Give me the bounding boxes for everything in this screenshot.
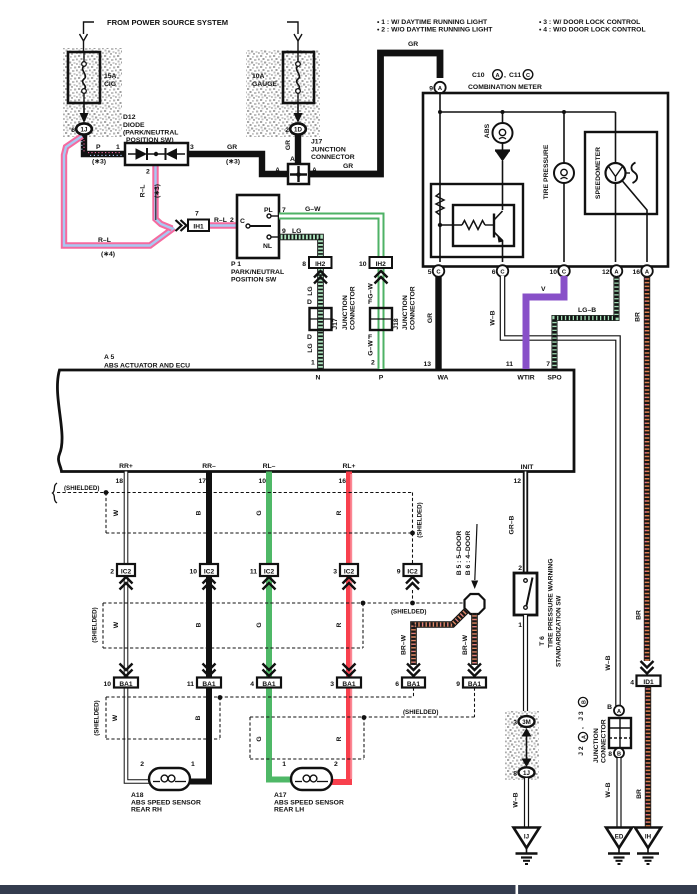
svg-text:B: B — [196, 510, 203, 515]
svg-text:CONNECTOR: CONNECTOR — [410, 286, 417, 330]
svg-text:B: B — [581, 700, 587, 704]
svg-text:GR: GR — [408, 41, 418, 48]
svg-text:PARK/NEUTRAL: PARK/NEUTRAL — [231, 269, 284, 276]
wire LG-B from meter pin12 to ECU SPO — [555, 276, 617, 369]
svg-text:12: 12 — [513, 478, 521, 485]
wire GR from 1D to J17 — [285, 134, 298, 164]
node base junction — [438, 223, 442, 227]
svg-text:POSITION SW: POSITION SW — [231, 277, 277, 284]
chevron into IH2 left — [314, 271, 327, 284]
svg-text:10A: 10A — [252, 73, 265, 80]
transistor inner box — [453, 205, 514, 246]
connector BA1 pin4 — [250, 678, 281, 689]
pin 9 A — [429, 82, 445, 93]
shield dashed sensor RR — [106, 688, 414, 740]
svg-text:C11: C11 — [509, 72, 521, 79]
junction connector J17 — [275, 164, 317, 184]
svg-text:,: , — [578, 727, 585, 729]
svg-text:B: B — [617, 752, 621, 758]
svg-text:8: 8 — [513, 771, 517, 778]
chevron above BA1 r — [343, 664, 356, 677]
svg-text:P 1: P 1 — [231, 261, 241, 268]
svg-text:CONNECTOR: CONNECTOR — [350, 286, 357, 330]
svg-text:NL: NL — [263, 243, 272, 250]
chevron under IC2 w — [120, 577, 133, 590]
svg-text:TIRE PRESSURE: TIRE PRESSURE — [543, 144, 550, 199]
label GR right of J17 — [343, 163, 353, 170]
svg-text:6: 6 — [395, 681, 399, 688]
svg-text:G–W: G–W — [305, 206, 321, 213]
svg-text:IC2: IC2 — [264, 569, 275, 576]
svg-text:BA1: BA1 — [202, 681, 216, 688]
svg-text:BR–W: BR–W — [401, 634, 408, 655]
labels W B G R upper shield — [113, 502, 424, 537]
junction connector J18 — [370, 286, 417, 330]
label 3 GR (*3) — [190, 144, 240, 166]
svg-text:BR: BR — [635, 312, 642, 322]
fuse 10A GAUGE — [252, 52, 314, 103]
svg-text:1D: 1D — [294, 127, 302, 134]
svg-text:3M: 3M — [522, 719, 531, 726]
wire from power source right — [287, 22, 302, 52]
svg-text:BR: BR — [636, 789, 643, 799]
shield dashed box upper — [57, 493, 413, 534]
connector oval 1D — [285, 123, 306, 134]
wire W-B to ground IJ — [513, 778, 527, 827]
svg-text:GR: GR — [427, 313, 434, 323]
label D12 DIODE — [123, 114, 178, 144]
label J17 JUNCTION CONNECTOR — [311, 139, 355, 162]
chevron above BA1 brw1 — [407, 664, 420, 677]
svg-text:(SHIELDED): (SHIELDED) — [94, 700, 101, 735]
svg-text:IH2: IH2 — [376, 261, 387, 268]
stipple area fuse 15A — [63, 48, 122, 137]
svg-text:JUNCTION: JUNCTION — [402, 295, 409, 330]
meter left rail wire — [439, 92, 441, 262]
pin 6 C — [492, 265, 509, 277]
stipple area fuse 10A — [246, 50, 320, 137]
wire LG from NL — [279, 237, 321, 257]
svg-text:D: D — [307, 299, 312, 306]
svg-text:J17: J17 — [311, 139, 323, 146]
svg-text:A: A — [617, 709, 621, 715]
svg-text:9: 9 — [429, 86, 433, 93]
svg-text:G–W: G–W — [368, 283, 375, 299]
connector IC2 pin9 — [397, 564, 422, 576]
shield dashed sensor RL — [250, 688, 475, 760]
svg-text:16: 16 — [338, 478, 346, 485]
speedometer box — [585, 132, 657, 214]
svg-text:W–B: W–B — [513, 792, 520, 807]
pin 5 C — [428, 265, 445, 277]
svg-text:REAR RH: REAR RH — [131, 807, 162, 814]
chevron above BA1 b — [203, 664, 216, 677]
svg-text:R–L: R–L — [214, 217, 227, 224]
svg-text:4: 4 — [250, 681, 254, 688]
wire W-B to ground ED — [605, 758, 619, 827]
svg-text:BA1: BA1 — [342, 681, 356, 688]
svg-text:RR+: RR+ — [119, 463, 133, 470]
svg-text:C: C — [526, 73, 530, 79]
transistor Q — [494, 211, 504, 262]
wire BR from meter pin16 — [635, 276, 648, 661]
svg-text:IC2: IC2 — [204, 569, 215, 576]
svg-text:W: W — [113, 509, 120, 516]
chevron into ID1 — [641, 661, 654, 674]
base resistor — [440, 221, 493, 230]
shield ring octagon — [465, 594, 485, 614]
svg-text:A: A — [290, 156, 295, 163]
svg-text:• 2 : W/O DAYTIME RUNNING LIGH: • 2 : W/O DAYTIME RUNNING LIGHT — [377, 27, 493, 34]
svg-text:GR–B: GR–B — [509, 515, 516, 534]
tire pressure lamp — [543, 112, 574, 262]
svg-text:B: B — [607, 704, 612, 711]
svg-text:CONNECTOR: CONNECTOR — [311, 154, 355, 161]
svg-text:(SHIELDED): (SHIELDED) — [417, 502, 424, 537]
svg-text:6: 6 — [492, 269, 496, 276]
wire G-W from PL — [279, 216, 381, 257]
svg-text:(SHIELDED): (SHIELDED) — [64, 485, 99, 492]
wire GR big elbow to combination meter — [309, 41, 440, 174]
svg-text:W: W — [113, 621, 120, 628]
label B5 B6 door — [456, 524, 478, 589]
tire pressure warning standardization switch T6 — [514, 565, 537, 629]
svg-text:F: F — [368, 299, 372, 306]
connector BA1 pin10 — [103, 678, 138, 689]
junction connector J17 lower — [310, 286, 357, 330]
ECU bottom pin labels — [115, 463, 534, 485]
svg-text:1: 1 — [518, 622, 522, 629]
transistor outer box — [431, 184, 523, 257]
wire from power source left — [80, 22, 95, 52]
wire GR-B INIT — [509, 472, 526, 574]
svg-text:12: 12 — [602, 269, 610, 276]
svg-text:GR: GR — [227, 144, 237, 151]
labels 7 G-W — [282, 206, 321, 214]
wire W-B from meter pin6 — [490, 276, 619, 706]
svg-text:10: 10 — [359, 261, 367, 268]
junction connector J2 J3 grid — [609, 718, 631, 748]
arrow into connector 1D — [294, 103, 303, 123]
svg-text:IJ: IJ — [524, 834, 530, 841]
chevron under IC2 g — [263, 577, 276, 590]
svg-text:W–B: W–B — [490, 310, 497, 325]
node shield upper left — [104, 490, 109, 495]
label R-L (*4) — [98, 237, 115, 258]
label P 1 PARK/NEUTRAL POSITION SW — [231, 261, 284, 284]
svg-text:A: A — [581, 735, 587, 739]
svg-text:2: 2 — [110, 569, 114, 576]
wire GR diode to J17 — [188, 154, 288, 174]
svg-text:COMBINATION METER: COMBINATION METER — [468, 84, 542, 91]
svg-text:10: 10 — [189, 569, 197, 576]
chevron under IC2 shield — [406, 577, 419, 590]
svg-text:2: 2 — [518, 565, 522, 572]
svg-text:IC2: IC2 — [407, 569, 418, 576]
wire BR to ground IH — [636, 686, 648, 827]
svg-text:3: 3 — [330, 681, 334, 688]
label JUNCTION CONNECTOR vertical — [593, 719, 608, 763]
ABS actuator and ECU box A5 — [57, 370, 574, 472]
connector IH2 right — [359, 257, 392, 268]
svg-text:A18: A18 — [131, 792, 144, 799]
label J2 A J3 B — [578, 697, 588, 755]
wire BR-W right — [462, 613, 475, 665]
labels 2 R-L (*3) — [140, 169, 162, 199]
shield brace left — [53, 483, 100, 503]
wire V from meter pin10 to ECU WTIR — [526, 276, 564, 369]
pin B circle J3 — [608, 748, 624, 758]
svg-text:(SHIELDED): (SHIELDED) — [403, 709, 438, 716]
svg-text:18: 18 — [115, 478, 123, 485]
wire G-W column to ECU pin P — [378, 267, 385, 369]
pin 10 C — [549, 265, 569, 277]
connector IC2 pin11 — [250, 564, 278, 576]
meter bus wire — [438, 110, 616, 114]
connector oval 1J lower — [513, 767, 534, 777]
svg-text:GR: GR — [285, 140, 292, 150]
svg-text:A: A — [275, 167, 280, 174]
svg-text:RR–: RR– — [202, 463, 216, 470]
svg-text:ED: ED — [615, 834, 624, 841]
svg-text:• 4 : W/O DOOR LOCK CONTROL: • 4 : W/O DOOR LOCK CONTROL — [539, 27, 646, 34]
svg-text:JUNCTION: JUNCTION — [593, 728, 600, 763]
connector BA1 pin6 — [395, 678, 425, 689]
svg-text:D: D — [307, 334, 312, 341]
chevron above BA1 w — [120, 664, 133, 677]
svg-text:WTIR: WTIR — [517, 375, 534, 382]
svg-text:V: V — [541, 286, 546, 293]
stipple area 3M 1J — [505, 711, 539, 780]
wire G RL- — [269, 472, 291, 780]
svg-text:W–B: W–B — [605, 655, 612, 670]
svg-text:9: 9 — [456, 681, 460, 688]
svg-text:11: 11 — [187, 681, 194, 688]
connector IC2 pin2 — [110, 564, 135, 576]
wire shield drain to IC2 — [412, 533, 414, 563]
svg-text:BR–W: BR–W — [462, 634, 469, 655]
svg-text:5: 5 — [428, 269, 432, 276]
ABS lamp — [484, 112, 513, 143]
wire W RR+ — [126, 472, 150, 782]
svg-text:4: 4 — [630, 680, 634, 687]
svg-text:LG: LG — [307, 343, 314, 352]
svg-text:R–L: R–L — [140, 185, 147, 198]
connector IH1 — [188, 211, 209, 232]
svg-text:BA1: BA1 — [119, 681, 133, 688]
label FROM POWER SOURCE SYSTEM — [107, 18, 228, 27]
svg-text:J18: J18 — [393, 318, 400, 330]
label W-B right column upper — [605, 655, 612, 670]
svg-text:(SHIELDED): (SHIELDED) — [391, 609, 426, 616]
connector IC2 pin3 — [333, 564, 358, 576]
pin labels P 1 — [92, 144, 120, 166]
chevron under IC2 r — [343, 577, 356, 590]
wire R-L (*4) — [64, 136, 174, 246]
wire R-L after IH1 to P1 — [209, 222, 246, 228]
diode in meter — [495, 143, 510, 210]
combination meter box — [423, 93, 668, 267]
svg-text:1J: 1J — [81, 127, 88, 134]
svg-text:P: P — [96, 144, 101, 151]
connector ID1 — [630, 676, 660, 687]
svg-text:(∗3): (∗3) — [226, 159, 240, 166]
svg-text:10: 10 — [549, 269, 557, 276]
svg-text:IC2: IC2 — [121, 569, 132, 576]
chevron into IH2 right — [375, 271, 388, 284]
svg-text:WA: WA — [438, 375, 449, 382]
svg-text:G: G — [256, 736, 263, 741]
svg-text:(∗4): (∗4) — [101, 251, 115, 258]
svg-text:IH2: IH2 — [315, 261, 326, 268]
svg-text:GAUGE: GAUGE — [252, 81, 277, 88]
svg-text:T 6: T 6 — [539, 636, 546, 646]
labels 9 LG — [282, 228, 301, 235]
diode D12 — [125, 143, 188, 165]
chevron above BA1 brw2 — [468, 664, 481, 677]
connector BA1 pin9 — [456, 678, 486, 689]
svg-text:17: 17 — [198, 478, 206, 485]
wire B RR- — [189, 472, 209, 782]
node shield RL — [362, 715, 367, 720]
svg-text:7: 7 — [195, 211, 199, 218]
label A5 ABS ACTUATOR AND ECU — [104, 354, 190, 370]
svg-text:3: 3 — [190, 144, 194, 151]
svg-text:CONNECTOR: CONNECTOR — [601, 719, 608, 763]
label COMBINATION METER — [468, 84, 542, 91]
svg-text:JUNCTION: JUNCTION — [342, 295, 349, 330]
svg-text:2: 2 — [334, 761, 338, 768]
svg-text:J 2: J 2 — [578, 746, 585, 756]
svg-text:2: 2 — [371, 360, 375, 367]
svg-text:PL: PL — [264, 207, 273, 214]
label A18 — [131, 792, 201, 814]
svg-text:BR: BR — [636, 610, 643, 620]
svg-text:2: 2 — [230, 217, 234, 224]
svg-text:IH: IH — [645, 834, 652, 841]
svg-text:• 3 : W/ DOOR LOCK CONTROL: • 3 : W/ DOOR LOCK CONTROL — [539, 19, 640, 26]
connector oval 1J — [71, 123, 92, 134]
pin 12 A — [602, 265, 622, 277]
svg-text:G: G — [256, 622, 263, 627]
label C10 A C11 C — [472, 70, 533, 80]
svg-text:F: F — [368, 334, 372, 341]
svg-text:(PARK/NEUTRAL: (PARK/NEUTRAL — [123, 130, 178, 137]
svg-text:2: 2 — [140, 761, 144, 768]
svg-text:(∗3): (∗3) — [154, 184, 161, 198]
svg-text:11: 11 — [250, 569, 257, 576]
ABS speed sensor rear RH A18 — [140, 761, 195, 790]
svg-text:D12: D12 — [123, 114, 136, 121]
svg-text:R: R — [336, 622, 343, 627]
svg-text:7: 7 — [546, 361, 550, 368]
labels W B G R mid shield — [92, 607, 427, 642]
svg-text:W: W — [112, 714, 119, 721]
wire GR meter pin5 to ECU WA — [427, 276, 439, 369]
svg-text:CIG: CIG — [104, 81, 116, 88]
svg-text:JUNCTION: JUNCTION — [311, 147, 346, 154]
svg-text:G–W: G–W — [368, 340, 375, 356]
node shield mid left — [361, 601, 366, 606]
wire R-L (*3) from diode pin 2 — [156, 165, 173, 229]
svg-text:A17: A17 — [274, 792, 287, 799]
node shield upper right — [410, 531, 415, 536]
svg-text:1: 1 — [282, 761, 286, 768]
wire W-B below T6 — [523, 615, 528, 717]
wire LG column to ECU pin N — [317, 267, 324, 369]
pin 16 A — [632, 265, 652, 277]
svg-text:B 5 : 5–DOOR: B 5 : 5–DOOR — [456, 531, 463, 576]
svg-text:10: 10 — [103, 681, 111, 688]
svg-text:B: B — [196, 622, 203, 627]
ABS speed sensor rear LH A17 — [282, 761, 338, 790]
svg-text:ABS: ABS — [484, 123, 491, 138]
svg-text:ID1: ID1 — [643, 679, 654, 686]
svg-text:IH1: IH1 — [193, 224, 204, 231]
chevron under IC2 b — [203, 577, 216, 590]
park/neutral position switch P1 — [237, 195, 279, 258]
shield dashed line mid — [103, 603, 464, 648]
svg-text:BA1: BA1 — [407, 681, 421, 688]
svg-text:11: 11 — [506, 361, 513, 368]
svg-text:6: 6 — [71, 127, 75, 134]
svg-text:B 6 : 4–DOOR: B 6 : 4–DOOR — [465, 531, 472, 576]
svg-text:ABS ACTUATOR AND ECU: ABS ACTUATOR AND ECU — [104, 363, 190, 370]
svg-text:STANDARDIZATION SW: STANDARDIZATION SW — [556, 595, 563, 667]
svg-text:TIRE PRESSURE WARNING: TIRE PRESSURE WARNING — [548, 558, 555, 648]
svg-text:G: G — [256, 510, 263, 515]
wire BR-W left — [401, 611, 467, 666]
arrow into connector 1J — [80, 103, 89, 123]
svg-text:• 1 : W/ DAYTIME RUNNING LIGHT: • 1 : W/ DAYTIME RUNNING LIGHT — [377, 19, 488, 26]
svg-text:1: 1 — [116, 144, 120, 151]
svg-text:3: 3 — [333, 569, 337, 576]
speedometer dial — [606, 112, 638, 183]
svg-text:FROM POWER SOURCE SYSTEM: FROM POWER SOURCE SYSTEM — [107, 18, 228, 27]
svg-text:N: N — [316, 375, 321, 382]
svg-text:SPEEDOMETER: SPEEDOMETER — [595, 147, 602, 199]
svg-text:LG: LG — [307, 286, 314, 295]
svg-text:B: B — [195, 715, 202, 720]
svg-text:P: P — [379, 375, 384, 382]
connector oval 3M — [513, 716, 534, 727]
svg-text:J 3: J 3 — [578, 711, 585, 721]
ground IJ — [514, 828, 540, 865]
node shield RR — [218, 695, 223, 700]
svg-text:8: 8 — [302, 261, 306, 268]
labels shield RL — [256, 709, 438, 742]
svg-text:IC2: IC2 — [344, 569, 355, 576]
speedometer output wires — [616, 181, 648, 263]
connector BA1 pin3 — [330, 678, 361, 689]
label A17 — [274, 792, 344, 814]
fuse 15A CIG — [68, 52, 117, 103]
label T6 tire pressure warning — [539, 558, 563, 667]
svg-text:DIODE: DIODE — [123, 122, 145, 129]
svg-text:BA1: BA1 — [468, 681, 482, 688]
svg-text:J17: J17 — [332, 318, 339, 330]
legend note 1 — [377, 19, 493, 34]
svg-text:C10: C10 — [472, 72, 485, 79]
svg-text:8: 8 — [608, 751, 612, 758]
svg-text:16: 16 — [632, 269, 640, 276]
chevron above BA1 g — [263, 664, 276, 677]
ground IH — [635, 828, 661, 865]
svg-text:1J: 1J — [523, 770, 530, 777]
svg-text:R: R — [336, 510, 343, 515]
label B and pin A circle J2 — [607, 704, 624, 716]
svg-text:LG–B: LG–B — [578, 307, 596, 314]
